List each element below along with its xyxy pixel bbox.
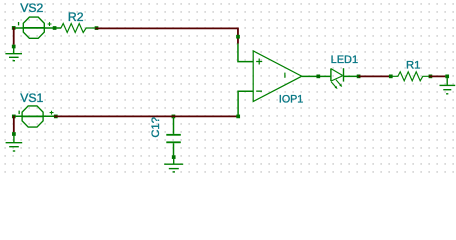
op-amp minus input mark xyxy=(256,91,262,92)
node: ground G3 pin square xyxy=(172,155,176,159)
ground G2 xyxy=(6,136,23,151)
node: ground G1 pin square xyxy=(12,45,16,49)
node: R1 left pin square xyxy=(389,75,393,79)
ground G1 xyxy=(5,48,22,61)
LED arrows xyxy=(331,82,336,87)
wire: green vertical + horizontal into op-amp - input xyxy=(237,91,253,115)
wire: R1 to ground (maroon) xyxy=(429,75,445,77)
wire: LED to R1 (maroon) xyxy=(359,75,390,77)
wire: top rail green lead VS2 to R2 xyxy=(13,27,61,29)
wire: green vertical + horizontal into op-amp + input xyxy=(237,44,253,62)
op-amp plus input mark xyxy=(256,59,262,65)
svg-text:R2: R2 xyxy=(68,10,84,24)
op-amp IOP1 triangle xyxy=(253,51,302,102)
svg-text:C1?: C1? xyxy=(150,117,162,138)
voltage source VS1 octagon xyxy=(19,106,54,127)
node: VS1 right pin square xyxy=(54,115,58,119)
svg-text:VS2: VS2 xyxy=(20,1,43,15)
VS2 plus mark xyxy=(48,22,52,26)
node: LED right pin square xyxy=(357,75,361,79)
node: output pin square xyxy=(316,75,320,79)
wire: VS2 left pin down to ground (maroon) xyxy=(13,27,15,45)
node: ground G2 pin square xyxy=(12,132,16,136)
VS1 minus mark xyxy=(19,111,20,115)
node: corner square bottom net xyxy=(236,115,240,119)
svg-text:LED1: LED1 xyxy=(331,54,359,66)
capacitor C1 top junction square xyxy=(172,115,176,119)
node: op-amp + feed pin square xyxy=(236,35,240,39)
resistor R2 zigzag xyxy=(61,24,98,33)
voltage source VS2 octagon xyxy=(18,17,52,38)
node: VS1 left pin square xyxy=(12,115,16,119)
svg-text:IOP1: IOP1 xyxy=(279,93,303,105)
wire: VS1 left pin down to ground (maroon) xyxy=(13,116,15,133)
ground G3 xyxy=(164,159,183,172)
VS2 minus mark xyxy=(18,22,19,25)
capacitor C1 xyxy=(166,117,181,155)
node: R2 right pin square xyxy=(95,26,99,30)
wire: VS1 to corner (maroon) xyxy=(54,115,237,117)
wire: op-amp output lead green xyxy=(302,75,331,77)
wire: LED right lead green xyxy=(344,75,360,77)
LED LED1 xyxy=(331,68,344,89)
node: VS2-R2 junction square xyxy=(53,26,57,30)
op-amp inner dash xyxy=(284,73,285,78)
wire: bottom rail green lead VS1 xyxy=(13,115,58,117)
VS1 plus mark xyxy=(50,111,54,115)
node: R1 right pin square xyxy=(429,75,433,79)
wire: R2 to corner (maroon) xyxy=(95,28,238,43)
node: ground G4 pin square xyxy=(445,75,449,79)
svg-text:R1: R1 xyxy=(406,59,420,71)
svg-text:VS1: VS1 xyxy=(20,91,43,105)
resistor R1 zigzag xyxy=(393,72,430,81)
node: VS2 left pin square xyxy=(12,26,16,30)
grid background xyxy=(0,0,456,173)
ground G4 xyxy=(440,78,456,94)
